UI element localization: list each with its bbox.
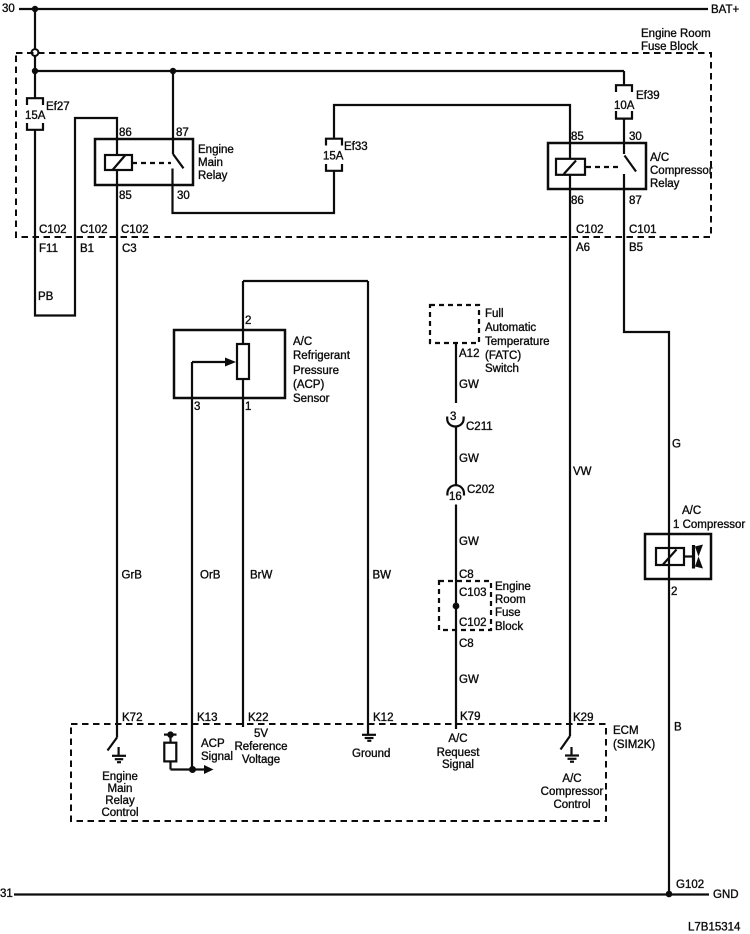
svg-text:85: 85	[571, 131, 584, 143]
svg-text:Control: Control	[101, 807, 138, 819]
svg-text:Pressure: Pressure	[293, 365, 339, 377]
svg-text:Signal: Signal	[201, 751, 233, 763]
svg-text:C102: C102	[39, 224, 67, 236]
svg-text:Control: Control	[553, 799, 590, 811]
svg-text:30: 30	[629, 131, 642, 143]
svg-text:OrB: OrB	[200, 570, 221, 582]
svg-text:VW: VW	[573, 466, 592, 478]
svg-text:Block: Block	[495, 621, 523, 633]
svg-text:Ef27: Ef27	[46, 101, 70, 113]
svg-text:A/C: A/C	[682, 505, 701, 517]
svg-text:F11: F11	[39, 243, 58, 255]
svg-text:Automatic: Automatic	[485, 322, 536, 334]
svg-text:Engine: Engine	[495, 581, 531, 593]
svg-text:(SIM2K): (SIM2K)	[613, 739, 655, 751]
svg-text:BW: BW	[373, 570, 392, 582]
svg-text:GrB: GrB	[122, 570, 143, 582]
svg-text:A12: A12	[459, 348, 479, 360]
svg-text:K22: K22	[248, 712, 268, 724]
svg-text:B5: B5	[629, 242, 643, 254]
svg-text:K72: K72	[122, 712, 142, 724]
svg-text:A/C: A/C	[650, 152, 669, 164]
svg-text:C101: C101	[629, 224, 657, 236]
svg-text:GND: GND	[713, 889, 739, 901]
svg-text:Full: Full	[485, 308, 504, 320]
svg-text:Fuse: Fuse	[495, 607, 521, 619]
svg-text:Room: Room	[495, 594, 526, 606]
svg-text:Sensor: Sensor	[293, 393, 330, 405]
svg-text:C102: C102	[576, 224, 604, 236]
svg-text:2: 2	[245, 315, 251, 327]
svg-text:L7B15314: L7B15314	[688, 922, 741, 934]
svg-text:C202: C202	[467, 484, 495, 496]
svg-text:15A: 15A	[25, 110, 46, 122]
svg-text:1 Compressor: 1 Compressor	[673, 519, 745, 531]
svg-text:C102: C102	[121, 224, 149, 236]
svg-text:GW: GW	[459, 536, 479, 548]
svg-text:16: 16	[449, 491, 462, 503]
svg-text:ECM: ECM	[613, 725, 639, 737]
svg-text:C3: C3	[122, 243, 137, 255]
svg-text:(ACP): (ACP)	[293, 379, 324, 391]
svg-text:Relay: Relay	[650, 178, 680, 190]
svg-text:Main: Main	[198, 157, 223, 169]
svg-text:(FATC): (FATC)	[485, 350, 521, 362]
svg-text:Voltage: Voltage	[242, 754, 280, 766]
svg-text:PB: PB	[38, 291, 54, 303]
svg-text:ACP: ACP	[201, 738, 225, 750]
svg-text:Engine: Engine	[102, 771, 138, 783]
svg-text:Relay: Relay	[105, 795, 135, 807]
svg-text:1: 1	[245, 401, 251, 413]
svg-text:Refrigerant: Refrigerant	[293, 350, 351, 362]
svg-text:K79: K79	[460, 711, 480, 723]
svg-text:A6: A6	[576, 242, 590, 254]
svg-text:86: 86	[571, 195, 584, 207]
svg-text:GW: GW	[459, 453, 479, 465]
svg-text:Engine: Engine	[198, 144, 234, 156]
svg-text:C8: C8	[459, 569, 474, 581]
svg-text:Signal: Signal	[442, 759, 474, 771]
svg-text:Ground: Ground	[352, 748, 390, 760]
svg-text:30: 30	[177, 190, 190, 202]
svg-text:BrW: BrW	[250, 570, 273, 582]
svg-text:Switch: Switch	[485, 363, 519, 375]
svg-text:31: 31	[0, 888, 13, 900]
svg-text:5V: 5V	[254, 728, 268, 740]
svg-text:Relay: Relay	[198, 170, 228, 182]
svg-text:B1: B1	[80, 243, 94, 255]
svg-text:K29: K29	[573, 712, 593, 724]
svg-text:G: G	[672, 439, 681, 451]
svg-text:Compressor: Compressor	[541, 786, 604, 798]
svg-text:3: 3	[194, 401, 200, 413]
svg-text:Reference: Reference	[234, 741, 287, 753]
svg-text:GW: GW	[459, 379, 479, 391]
svg-text:B: B	[674, 722, 682, 734]
svg-text:C8: C8	[459, 638, 474, 650]
svg-text:86: 86	[119, 127, 132, 139]
svg-text:C102: C102	[459, 617, 487, 629]
svg-text:Main: Main	[108, 783, 133, 795]
svg-text:85: 85	[119, 190, 132, 202]
svg-text:Ef39: Ef39	[636, 90, 660, 102]
svg-text:Temperature: Temperature	[485, 336, 550, 348]
svg-text:87: 87	[629, 195, 642, 207]
svg-text:3: 3	[450, 411, 456, 423]
svg-text:Request: Request	[437, 747, 481, 759]
svg-text:K12: K12	[373, 712, 393, 724]
svg-text:K13: K13	[197, 712, 217, 724]
svg-text:15A: 15A	[323, 151, 344, 163]
svg-text:2: 2	[671, 586, 677, 598]
svg-text:A/C: A/C	[562, 773, 581, 785]
svg-text:10A: 10A	[614, 100, 635, 112]
svg-text:30: 30	[2, 3, 15, 15]
svg-text:G102: G102	[676, 879, 704, 891]
svg-text:C102: C102	[80, 224, 108, 236]
svg-text:Engine Room: Engine Room	[641, 28, 711, 40]
svg-text:BAT+: BAT+	[711, 4, 740, 16]
svg-text:Compressor: Compressor	[650, 165, 713, 177]
svg-text:A/C: A/C	[293, 336, 312, 348]
svg-text:C103: C103	[459, 587, 487, 599]
svg-text:A/C: A/C	[448, 733, 467, 745]
svg-text:Fuse Block: Fuse Block	[641, 41, 698, 53]
svg-text:Ef33: Ef33	[344, 141, 368, 153]
svg-text:87: 87	[176, 127, 189, 139]
svg-text:GW: GW	[459, 674, 479, 686]
svg-text:C211: C211	[466, 421, 493, 433]
